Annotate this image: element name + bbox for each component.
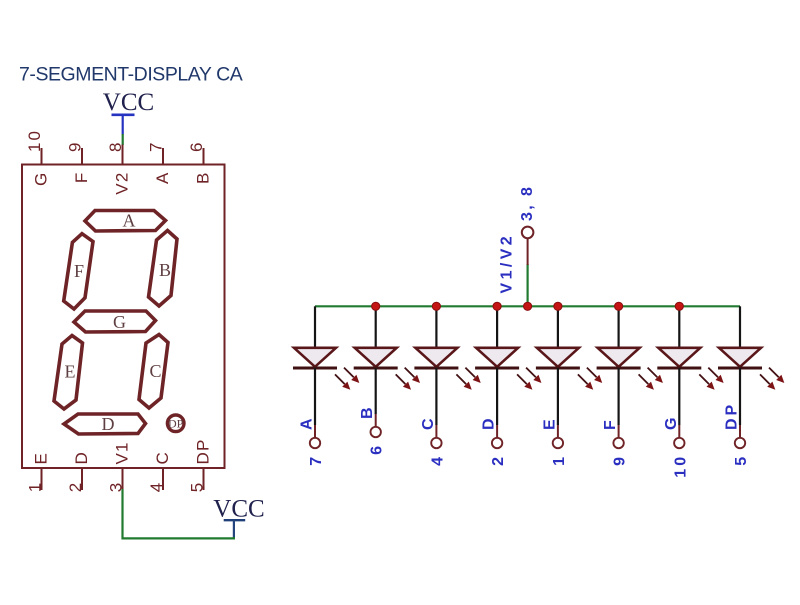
junction dot at x=375.7 [372,302,380,310]
svg-text:V2: V2 [113,172,132,195]
wire LED D3 cathode down [435,368,437,425]
svg-text:7: 7 [147,141,166,152]
LED D8 arrow 1 [769,368,784,383]
wire LED D7 cathode down [678,368,680,425]
wire bus tap to terminal 3,8 (green) [526,264,528,306]
svg-text:9: 9 [66,141,85,152]
terminal C pin stub [435,425,437,438]
svg-text:6: 6 [187,141,206,152]
LED D4 cathode bar [475,367,519,370]
pin 2 stub (bottom) [81,468,83,490]
pin 3 stub (bottom) [122,468,124,490]
terminal DP pin stub [739,425,741,438]
junction dot at x=436.4 [432,302,440,310]
svg-text:1: 1 [26,481,45,492]
segment DP ring [167,415,184,432]
LED D5 cathode bar [536,367,580,370]
wire LED D4 cathode down [496,368,498,425]
svg-text:B: B [159,260,171,280]
segment D [64,414,146,434]
segment B [149,231,178,307]
terminal D pin stub [496,425,498,438]
LED D8 (DP) triangle [719,348,761,367]
svg-text:F: F [74,261,84,281]
terminal B pin stub [375,414,377,427]
power terminal VCC (bottom) stub [233,520,235,538]
svg-text:2: 2 [66,481,85,492]
LED D1 arrow 2 [335,374,350,389]
LED D1 cathode bar [293,367,337,370]
pin 5 stub (bottom) [203,468,205,490]
svg-text:8: 8 [106,141,125,152]
7-segment display body box [22,165,225,469]
svg-text:G: G [113,312,126,332]
svg-text:E: E [32,452,51,465]
LED D7 arrow 2 [699,374,714,389]
wire LED D5 cathode down [557,368,559,425]
LED D7 arrow 1 [708,368,723,383]
power terminal VCC (top) stub [122,115,124,135]
terminal DP pin circle [735,438,745,448]
terminal G pin stub [678,425,680,438]
svg-text:F: F [72,172,91,184]
segment E [54,336,83,410]
svg-text:D: D [102,414,115,434]
terminal F pin stub [618,425,620,438]
terminal G pin circle [674,438,684,448]
svg-text:9: 9 [612,454,629,466]
LED D6 (F) triangle [598,348,640,367]
svg-text:E: E [541,416,558,430]
svg-text:A: A [299,415,316,430]
wire LED D6 cathode down [617,368,619,425]
LED D7 cathode bar [657,367,701,370]
wire LED D2 cathode down [375,368,377,414]
terminal F pin circle [613,438,623,448]
junction dot at x=497.1 [493,302,501,310]
terminal A pin circle [310,438,320,448]
svg-text:DP: DP [724,402,741,430]
svg-text:10: 10 [25,129,44,152]
terminal C pin circle [431,438,441,448]
svg-text:DP: DP [194,438,213,464]
svg-text:G: G [32,172,51,186]
svg-text:F: F [602,417,619,430]
pin 7 stub (top) [162,148,164,165]
svg-text:G: G [663,415,680,430]
wire pin 3 to VCC (green) [123,489,234,538]
wire bus to LED D8 anode [739,306,741,348]
power terminal VCC (top) bar [112,114,135,117]
svg-text:6: 6 [369,443,386,455]
LED D2 arrow 1 [405,368,420,383]
svg-text:B: B [359,404,376,419]
svg-text:VCC: VCC [103,89,154,116]
LED D2 arrow 2 [396,374,411,389]
svg-text:5: 5 [188,481,207,492]
pin 1 stub (bottom) [41,468,43,490]
junction dot at x=557.9 [554,302,562,310]
wire bus to LED D2 anode [375,306,377,348]
junction dot at x=679.3 [675,302,683,310]
terminal E pin circle [553,438,563,448]
svg-text:V1: V1 [113,441,132,464]
svg-text:7: 7 [308,454,325,466]
svg-text:D: D [481,415,498,430]
wire bus to LED D3 anode [435,306,437,348]
junction dot at x=618.6 [615,302,623,310]
svg-text:C: C [153,451,172,464]
junction dot at x=527.6 [524,302,532,310]
LED D7 (G) triangle [658,348,700,367]
LED D3 cathode bar [414,367,458,370]
terminal B pin circle [371,427,381,437]
segment C [139,335,168,409]
svg-text:3, 8: 3, 8 [519,185,536,221]
LED D1 (A) triangle [294,348,336,367]
segment F [64,234,93,309]
power terminal VCC (bottom) bar [224,519,246,521]
svg-text:DP: DP [168,417,184,431]
LED D6 cathode bar [597,367,641,370]
svg-text:4: 4 [147,481,166,492]
LED D3 arrow 1 [465,368,480,383]
terminal 3,8 pin circle [522,227,534,239]
svg-text:2: 2 [490,454,507,466]
svg-text:A: A [153,172,172,185]
pin 10 stub (top) [41,148,43,165]
terminal A pin stub [314,425,316,438]
svg-text:B: B [194,172,213,185]
pin 6 stub (top) [203,148,205,165]
wire bus to LED D4 anode [496,306,498,348]
wire bus to LED D6 anode [617,306,619,348]
LED D4 arrow 2 [517,374,532,389]
svg-text:V1/V2: V1/V2 [498,233,515,294]
pin 4 stub (bottom) [162,468,164,490]
LED D3 (C) triangle [415,348,457,367]
svg-text:C: C [149,361,161,381]
svg-text:5: 5 [733,454,750,466]
wire LED D1 cathode down [314,368,316,425]
svg-text:4: 4 [429,454,446,466]
svg-text:D: D [72,451,91,464]
terminal E pin stub [557,425,559,438]
anode bus wire (green) [315,305,740,307]
LED D3 arrow 2 [456,374,471,389]
LED D2 cathode bar [354,367,398,370]
svg-text:1: 1 [551,454,568,466]
LED D8 cathode bar [718,367,762,370]
LED D6 arrow 2 [639,374,654,389]
svg-text:E: E [65,362,76,382]
svg-text:7-SEGMENT-DISPLAY CA: 7-SEGMENT-DISPLAY CA [19,64,243,86]
wire LED D8 cathode down [739,368,741,425]
svg-text:C: C [420,415,437,430]
LED D4 (D) triangle [476,348,518,367]
pin 8 wire stub upper [122,145,124,149]
pin 9 stub (top) [81,148,83,165]
svg-text:10: 10 [672,454,689,478]
LED D2 (B) triangle [355,348,397,367]
LED D4 arrow 1 [526,368,541,383]
segment G [74,311,156,332]
LED D8 arrow 2 [760,374,775,389]
wire VCC to pin 8 (green) [122,134,124,145]
LED D5 arrow 2 [578,374,593,389]
wire bus to LED D5 anode [557,306,559,348]
LED D5 (E) triangle [537,348,579,367]
terminal D pin circle [492,438,502,448]
segment A [85,211,166,232]
LED D5 arrow 1 [587,368,602,383]
wire bus to LED D1 anode [314,306,316,348]
LED D6 arrow 1 [648,368,663,383]
wire bus to LED D7 anode [678,306,680,348]
svg-text:A: A [123,211,136,231]
LED D1 arrow 1 [344,368,359,383]
terminal 3,8 pin stub [527,239,529,266]
pin 8 stub (top) [122,148,124,165]
svg-text:VCC: VCC [213,496,264,523]
